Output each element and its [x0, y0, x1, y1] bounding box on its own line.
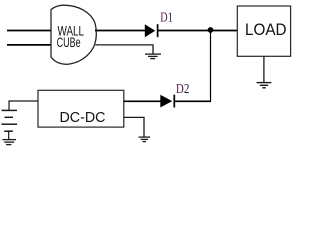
svg-text:D1: D1 [160, 11, 173, 26]
ground under LOAD [257, 83, 272, 88]
svg-text:CUBe: CUBe [57, 34, 81, 50]
wire vertical rail junction to D2 [210, 31, 212, 102]
wire AC input bottom [7, 44, 51, 46]
svg-text:LOAD: LOAD [245, 21, 287, 39]
svg-text:DC-DC: DC-DC [60, 109, 106, 126]
wire wall-cube output to D1 [95, 30, 145, 32]
wire LOAD ground stub [263, 56, 265, 82]
wire battery to DC-DC [9, 101, 38, 110]
ground DC-DC return [139, 137, 151, 142]
wire D1 cathode to LOAD [158, 30, 237, 32]
DC-DC converter box [38, 90, 124, 127]
wire AC input top [7, 30, 51, 32]
ground wall-cube return [145, 54, 161, 59]
ground battery [2, 140, 16, 145]
wire DC-DC output to D2 [124, 100, 161, 102]
wire battery to ground [8, 131, 10, 139]
battery BT1 [2, 110, 18, 131]
wire DC-DC return to ground [124, 117, 144, 136]
svg-text:D2: D2 [176, 82, 190, 97]
diode D1 [145, 24, 158, 37]
wall cube source U1 [51, 5, 96, 64]
node junction dot [208, 27, 214, 33]
diode D2 [160, 95, 174, 108]
wire wall-cube return to ground [96, 45, 154, 54]
wire D2 cathode to rail [175, 100, 211, 102]
LOAD box [237, 6, 290, 56]
